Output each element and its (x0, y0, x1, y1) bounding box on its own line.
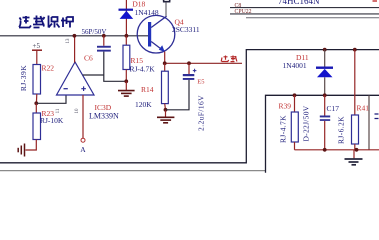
wire R23 to ground (26, 140, 37, 151)
box right block (266, 95, 379, 173)
ground below R14 (165, 110, 167, 117)
wire third (246, 17, 379, 19)
wire collector (165, 3, 167, 17)
svg-text:10: 10 (75, 108, 80, 114)
node R22/R23 junction (34, 101, 38, 105)
svg-text:120K: 120K (135, 100, 152, 109)
svg-text:C6: C6 (84, 54, 93, 63)
text sliver right edge (375, 114, 379, 119)
svg-text:R14: R14 (141, 85, 154, 94)
power bar over collector (163, 0, 171, 2)
svg-text:RJ-10K: RJ-10K (40, 116, 64, 125)
sheet border bottom-left (0, 50, 379, 163)
svg-text:11: 11 (56, 108, 61, 113)
svg-text:C17: C17 (327, 104, 340, 113)
diode D11 (323, 48, 327, 52)
resistor R39 (293, 93, 297, 97)
wire C6 stub to triangle edge (83, 74, 104, 76)
wire C6 bottom to R15 bottom (104, 52, 127, 82)
wire C8 (230, 7, 379, 9)
护 (61, 17, 73, 28)
svg-text:R22: R22 (42, 64, 55, 73)
op-amp U1 IC3D triangle (57, 62, 95, 95)
svg-text:R41: R41 (357, 104, 370, 113)
svg-text:2SC3311: 2SC3311 (172, 25, 200, 34)
title 过载保护 (19, 16, 73, 28)
svg-text:R39: R39 (279, 102, 292, 111)
wire R22 bottom (35, 94, 37, 103)
svg-text:RJ-6.2K: RJ-6.2K (337, 116, 346, 144)
resistor R15 (125, 36, 127, 45)
capacitor C17 (324, 95, 326, 115)
cut-off label fragment top right (373, 0, 378, 2)
sheet border gray line (0, 170, 266, 172)
diode D18 (125, 0, 127, 36)
resistor R23 (35, 103, 37, 113)
svg-text:D-22J/50V: D-22J/50V (302, 105, 311, 141)
port A (81, 138, 85, 142)
capacitor C6 (102, 34, 106, 38)
resistor R14 (164, 63, 166, 71)
resistor R41 (353, 48, 357, 52)
svg-text:74HC164N: 74HC164N (278, 0, 320, 6)
ground (left, chassis) (18, 144, 24, 157)
plus input glyph (81, 86, 86, 91)
node output junction (73, 34, 77, 38)
svg-text:RJ-4.7K: RJ-4.7K (279, 115, 288, 143)
wire plus pin to port A (82, 95, 84, 138)
ground (right) (353, 150, 355, 159)
minus input glyph (64, 88, 68, 90)
svg-text:56P/50V: 56P/50V (82, 28, 107, 36)
过 (19, 16, 31, 28)
ground below R15 (125, 81, 127, 90)
wire op-amp output (74, 36, 76, 63)
svg-text:RJ-4.7K: RJ-4.7K (130, 65, 156, 74)
resistor R22 (33, 65, 41, 95)
wire main top line (0, 35, 148, 37)
net label 过载 (221, 56, 237, 62)
wire +5 to R22 (36, 51, 38, 65)
svg-text:2.2uF/16V: 2.2uF/16V (196, 95, 205, 131)
svg-text:1N4001: 1N4001 (283, 61, 307, 70)
capacitor E5 electrolytic (188, 63, 190, 74)
svg-text:LM339N: LM339N (89, 112, 119, 121)
wire emitter net 过载 (165, 62, 242, 64)
svg-text:A: A (80, 145, 86, 154)
载 (33, 16, 45, 28)
svg-text:13: 13 (66, 38, 71, 44)
wire bottom right ground net (295, 149, 379, 151)
wire right vertical (368, 95, 370, 150)
wire emitter down (164, 52, 166, 64)
wire CPU22 (230, 13, 379, 15)
node R14/E5 ground junction (164, 108, 168, 112)
svg-text:RJ-39K: RJ-39K (19, 65, 28, 91)
保 (49, 16, 60, 28)
svg-text:+5: +5 (33, 42, 41, 50)
transistor Q2 Q4 (137, 15, 175, 53)
svg-text:E5: E5 (197, 79, 204, 86)
wire junction to minus pin (36, 95, 66, 103)
node R15 bottom (124, 79, 128, 83)
